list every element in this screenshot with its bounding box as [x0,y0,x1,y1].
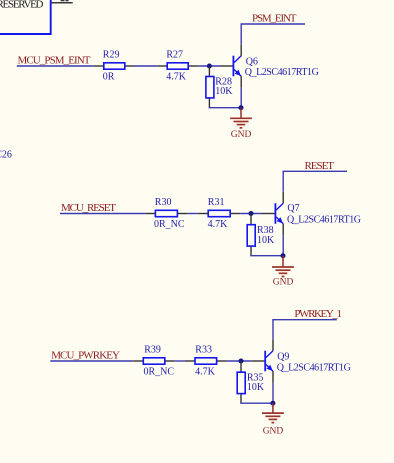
junction node emitter/GND [239,105,244,110]
svg-text:0R: 0R [103,72,115,83]
transistor Q6 Q_L2SC4617RT1G [233,44,318,88]
svg-text:Q_L2SC4617RT1G: Q_L2SC4617RT1G [277,362,351,373]
ground GND row3 [262,403,284,436]
wire R29 to R27 [134,65,157,67]
wire R30 to R31 [187,213,198,215]
svg-text:PSM_EINT: PSM_EINT [252,12,297,24]
junction node base Q9 [239,359,244,364]
wire emitter Q7 down [282,235,284,255]
svg-text:PWRKEY_1: PWRKEY_1 [294,308,342,320]
resistor R33 4.7K [185,345,227,378]
svg-text:10K: 10K [215,86,233,97]
wire R33 to base node [227,360,252,362]
resistor R30 0R_NC [145,197,187,230]
junction node emitter/GND row2 [281,253,286,258]
svg-text:Q7: Q7 [287,203,299,214]
svg-text:RESERVED: RESERVED [0,0,44,11]
svg-text:C26: C26 [0,150,12,161]
wire collector Q6 up [240,24,242,45]
svg-text:0R_NC: 0R_NC [154,219,185,230]
svg-text:Q9: Q9 [277,351,289,362]
svg-text:MCU_RESET: MCU_RESET [61,202,116,214]
wire R27 to base node [198,65,220,67]
wire collector Q9 up [272,319,274,339]
pin base Q7 [262,213,275,215]
svg-text:RESET: RESET [305,160,335,172]
resistor R29 0R [94,50,134,83]
svg-text:R29: R29 [103,50,120,61]
wire collector Q7 up [282,171,284,192]
wire R38 bottom to emitter node [251,254,283,257]
junction node emitter/GND row3 [270,401,275,406]
wire R39 to R33 [175,360,185,362]
wire emitter Q6 down [240,88,242,108]
ground GND row1 [230,108,252,140]
resistor R39 0R_NC [133,345,175,378]
svg-text:R31: R31 [208,197,225,208]
resistor R38 10K [247,214,275,256]
svg-text:GND: GND [273,277,294,287]
pin base Q9 [252,360,265,362]
svg-text:R30: R30 [155,197,172,208]
wire emitter Q9 down [272,383,274,403]
wire R35 bottom to emitter node [241,402,273,405]
svg-text:R39: R39 [144,345,161,356]
svg-text:Q_L2SC4617RT1G: Q_L2SC4617RT1G [287,214,361,225]
svg-text:R27: R27 [166,50,183,61]
wire MCU_RESET to R30 [60,213,145,215]
clipped text fragment above stub [61,0,65,1]
wire R31 to base node [240,213,262,215]
svg-text:Q6: Q6 [246,56,258,67]
svg-text:GND: GND [231,130,252,140]
wire R28 bottom to emitter node [209,106,241,109]
wire PWRKEY_1 [272,319,337,321]
wire MCU_PSM_EINT to R29 [17,65,94,67]
svg-text:GND: GND [263,426,284,436]
svg-text:10K: 10K [257,235,275,246]
resistor R31 4.7K [198,197,240,230]
svg-text:4.7K: 4.7K [166,72,187,83]
junction node base Q6 [207,64,212,69]
svg-text:R33: R33 [195,345,212,356]
resistor R35 10K [237,361,265,403]
resistor R27 4.7K [157,50,198,83]
svg-text:0R_NC: 0R_NC [144,367,175,378]
transistor Q7 Q_L2SC4617RT1G [275,192,361,236]
svg-text:10K: 10K [247,382,265,393]
wire RESET [283,170,348,172]
resistor R28 10K [206,66,233,108]
junction node base Q7 [249,211,254,216]
sheet-symbol box corner [0,0,51,34]
svg-text:Q_L2SC4617RT1G: Q_L2SC4617RT1G [245,67,319,78]
wire PSM_EINT [241,23,306,25]
svg-text:4.7K: 4.7K [195,367,216,378]
clipped pin stub at top edge [52,2,73,4]
svg-text:MCU_PSM_EINT: MCU_PSM_EINT [18,55,91,67]
ground GND row2 [272,256,294,288]
svg-text:MCU_PWRKEY: MCU_PWRKEY [51,350,120,362]
transistor Q9 Q_L2SC4617RT1G [265,339,351,383]
svg-text:4.7K: 4.7K [208,219,229,230]
wire MCU_PWRKEY to R39 [50,360,133,362]
pin base Q6 [220,65,233,67]
